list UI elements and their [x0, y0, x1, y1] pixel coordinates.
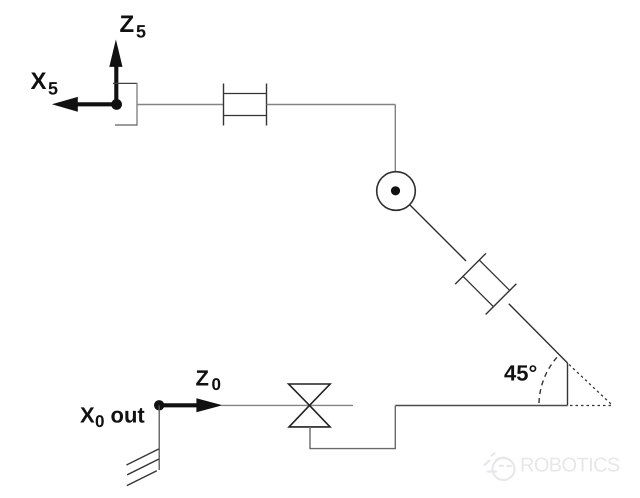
- revolute joint R1 (axis out of plane): [377, 172, 416, 211]
- prismatic joint P1 (horizontal): [224, 84, 267, 126]
- svg-text:Z: Z: [120, 11, 135, 38]
- svg-text:out: out: [111, 403, 146, 428]
- prismatic joint P2 (diagonal): [455, 253, 516, 314]
- dotted horizontal extension: [570, 405, 613, 407]
- svg-text:45°: 45°: [504, 361, 537, 386]
- svg-text:ROBOTICS: ROBOTICS: [520, 455, 620, 477]
- dotted diagonal extension: [569, 365, 611, 405]
- end-effector bracket right edge: [136, 83, 138, 126]
- svg-text:5: 5: [136, 22, 146, 42]
- svg-text:X: X: [31, 68, 47, 95]
- end-effector bracket bottom edge: [115, 124, 137, 126]
- svg-text:0: 0: [212, 375, 221, 394]
- frame-0 origin dot: [154, 400, 164, 410]
- wire base link horizontal: [221, 404, 353, 406]
- svg-text:5: 5: [48, 79, 58, 99]
- axis arrow Z0 (right): [159, 398, 222, 412]
- watermark logo: [485, 454, 515, 481]
- frame-5 origin dot: [111, 99, 122, 110]
- diagonal link upper segment: [410, 205, 466, 261]
- label Z0: [196, 366, 221, 395]
- wire link4 horizontal: [267, 104, 396, 106]
- label Z5: [120, 11, 147, 42]
- wire baseline: [395, 405, 567, 407]
- end-effector bracket top edge: [113, 82, 137, 84]
- revolute joint R0 (bowtie, axis in plane): [289, 384, 331, 427]
- wire vertical drop at elbow: [567, 363, 569, 406]
- svg-text:X: X: [80, 403, 95, 428]
- label X5: [31, 68, 59, 99]
- ground hatching: [127, 449, 159, 486]
- dashed 45-degree arc: [539, 355, 560, 404]
- label X0 out: [80, 403, 145, 432]
- axis arrow Z5 (up): [109, 39, 122, 104]
- svg-text:0: 0: [95, 412, 104, 431]
- diagonal link lower segment: [509, 304, 568, 363]
- wire base vertical: [158, 405, 160, 470]
- wire link5 horizontal: [137, 104, 224, 106]
- axis arrow X5 (left): [52, 97, 117, 112]
- wire link4 vertical: [394, 105, 396, 173]
- svg-text:Z: Z: [196, 366, 209, 391]
- wire step path: [310, 406, 395, 449]
